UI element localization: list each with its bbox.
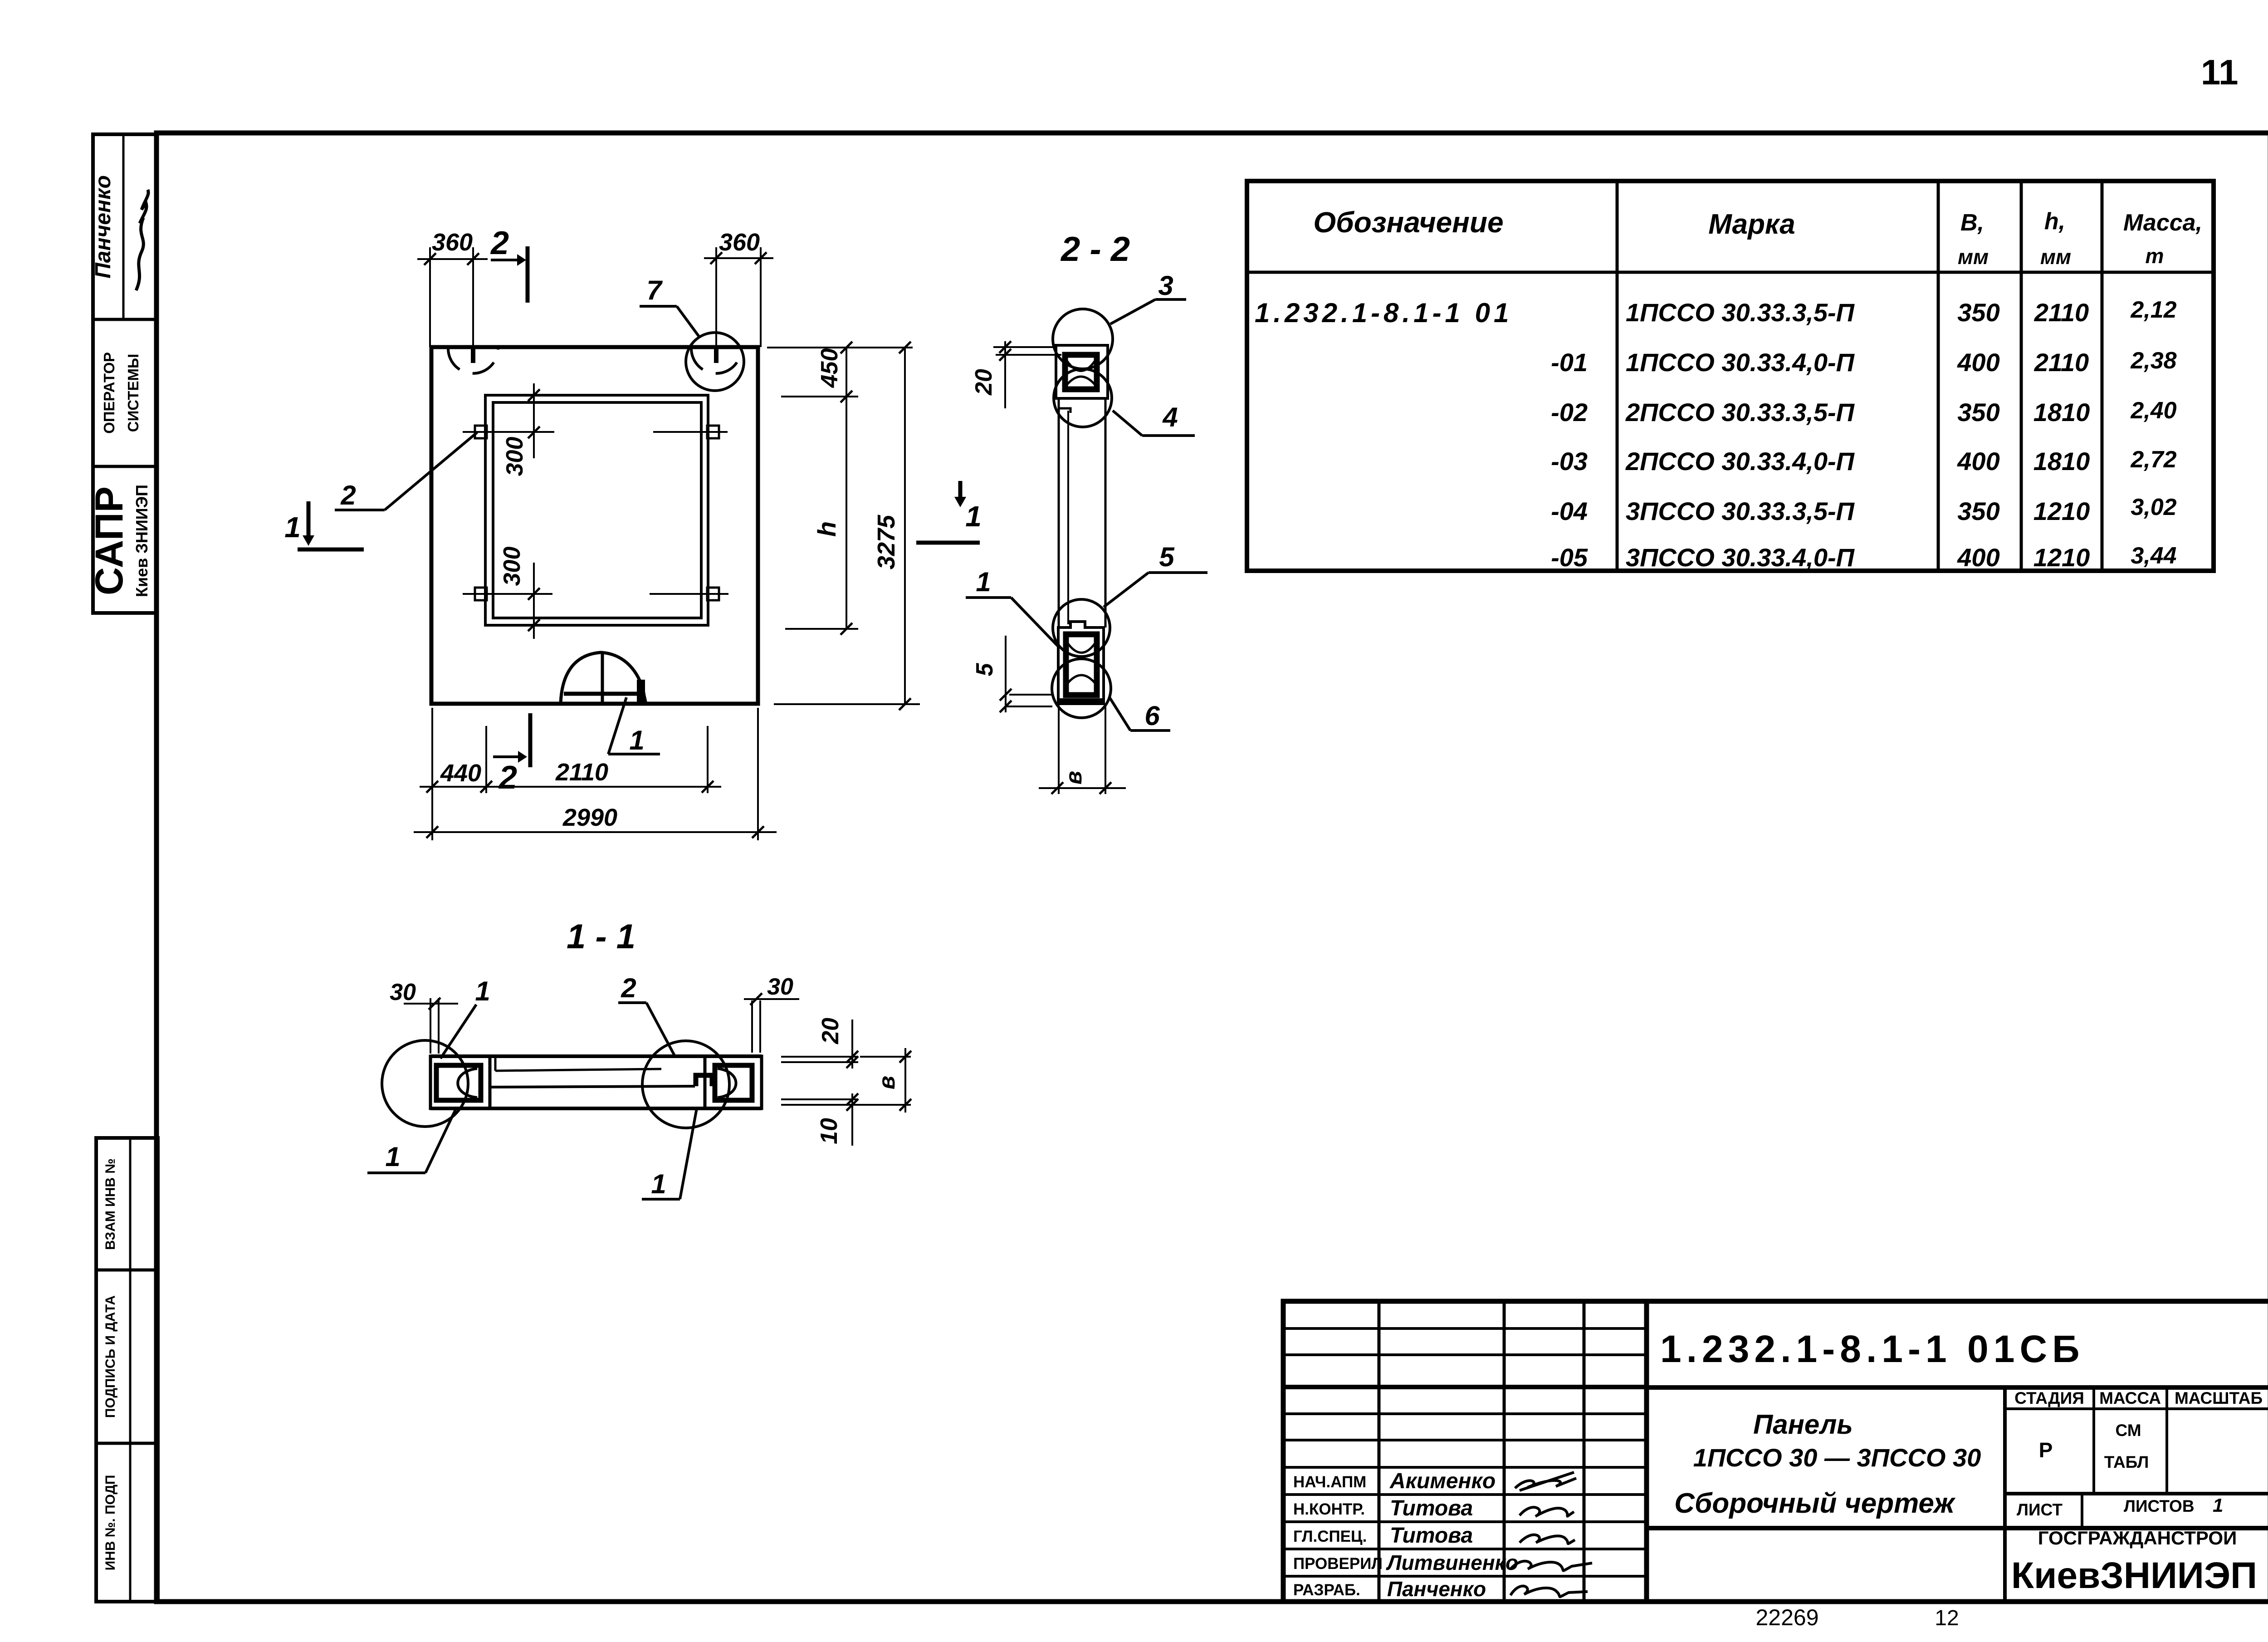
signature titova 1 — [1520, 1507, 1574, 1516]
svg-text:11: 11 — [2201, 52, 2238, 92]
title block left grid horizontals — [1283, 1327, 1647, 1330]
svg-text:САПР: САПР — [88, 486, 131, 595]
svg-text:Н.КОНТР.: Н.КОНТР. — [1293, 1500, 1365, 1518]
window opening inner — [493, 402, 701, 618]
svg-text:2990: 2990 — [562, 804, 617, 831]
dim 360 top-right — [715, 247, 717, 346]
svg-text:1: 1 — [651, 1169, 666, 1199]
svg-text:В,: В, — [1960, 210, 1984, 236]
dim line 3275 — [904, 348, 906, 704]
section 1-1 left box outer — [430, 1056, 490, 1108]
svg-text:350: 350 — [1957, 398, 1999, 426]
svg-text:3275: 3275 — [873, 515, 900, 569]
svg-text:Панченко: Панченко — [91, 175, 115, 279]
svg-text:ВЗАМ ИНВ №: ВЗАМ ИНВ № — [103, 1158, 118, 1250]
svg-text:1: 1 — [385, 1142, 400, 1172]
svg-text:МАСШТАБ: МАСШТАБ — [2175, 1389, 2263, 1407]
dim 10 right 1-1 — [851, 1093, 853, 1146]
section 2-2 top loop arcs — [1067, 361, 1095, 371]
svg-text:4: 4 — [1162, 402, 1178, 432]
svg-text:30: 30 — [767, 974, 793, 1000]
svg-text:3,44: 3,44 — [2131, 543, 2176, 569]
svg-text:мм: мм — [1958, 245, 1989, 269]
section 2-2 bottom box channel — [1066, 634, 1097, 695]
title block right dividers — [1647, 1385, 2268, 1390]
svg-text:в: в — [1061, 771, 1086, 784]
svg-text:300: 300 — [499, 547, 525, 586]
svg-text:2ПССО 30.33.3,5-П: 2ПССО 30.33.3,5-П — [1625, 398, 1855, 426]
section 2-2 column edges — [1058, 398, 1060, 627]
svg-text:2: 2 — [621, 973, 636, 1003]
svg-text:5: 5 — [972, 662, 998, 676]
svg-text:3ПССО 30.33.4,0-П: 3ПССО 30.33.4,0-П — [1626, 543, 1855, 572]
svg-text:400: 400 — [1957, 447, 1999, 475]
svg-text:3: 3 — [1158, 270, 1173, 301]
title block left grid verticals — [1378, 1301, 1381, 1602]
specification table outline — [1247, 181, 2214, 571]
svg-text:360: 360 — [432, 229, 473, 256]
svg-text:ПРОВЕРИЛ: ПРОВЕРИЛ — [1293, 1555, 1383, 1573]
signature litvinenko — [1510, 1561, 1592, 1571]
sidebar top group box — [93, 134, 156, 613]
svg-text:1810: 1810 — [2033, 447, 2090, 475]
fixing tab upper left — [475, 426, 487, 438]
svg-text:1.232.1-8.1-1 01СБ: 1.232.1-8.1-1 01СБ — [1660, 1328, 2085, 1370]
svg-text:1ПССО 30.33.4,0-П: 1ПССО 30.33.4,0-П — [1626, 348, 1855, 377]
svg-text:ЛИСТ: ЛИСТ — [2017, 1500, 2063, 1519]
svg-text:РАЗРАБ.: РАЗРАБ. — [1293, 1581, 1360, 1599]
svg-text:350: 350 — [1957, 298, 1999, 327]
fixing tab upper right — [707, 426, 719, 438]
svg-text:360: 360 — [719, 229, 760, 256]
detail circle 4 — [1054, 369, 1112, 427]
svg-text:1ПССО 30 — 3ПССО 30: 1ПССО 30 — 3ПССО 30 — [1693, 1443, 1981, 1472]
svg-text:30: 30 — [390, 979, 416, 1005]
svg-text:ГЛ.СПЕЦ.: ГЛ.СПЕЦ. — [1293, 1528, 1367, 1545]
svg-text:ПОДПИСЬ И ДАТА: ПОДПИСЬ И ДАТА — [103, 1295, 118, 1418]
dim 20 section 2-2 — [993, 346, 1057, 348]
detail circle 5 — [1053, 599, 1110, 657]
section 1-1 inner line upper — [494, 1056, 497, 1071]
panel outline front view — [431, 347, 758, 704]
section 1-1 bar top and bottom — [430, 1054, 762, 1058]
section marker 2 bottom — [528, 713, 533, 767]
svg-text:Марка: Марка — [1708, 209, 1795, 240]
svg-text:20: 20 — [971, 369, 997, 396]
svg-text:1 - 1: 1 - 1 — [567, 917, 635, 956]
lifting loop right dashed arc — [691, 348, 741, 373]
svg-text:1: 1 — [284, 511, 301, 544]
window opening outer — [485, 395, 708, 625]
svg-text:20: 20 — [817, 1018, 844, 1044]
section 2-2 top frame box outer — [1056, 345, 1108, 398]
svg-text:1: 1 — [475, 976, 490, 1006]
svg-text:2,12: 2,12 — [2130, 297, 2176, 323]
section 1-1 left box channel — [436, 1065, 481, 1100]
svg-text:10: 10 — [816, 1118, 842, 1144]
dim 2990 — [414, 831, 777, 833]
dim line 450 and h — [846, 348, 847, 629]
svg-text:1: 1 — [2213, 1495, 2223, 1516]
section 2-2 bottom box outer — [1058, 622, 1104, 704]
svg-text:2110: 2110 — [2034, 348, 2089, 377]
section marker 1 right — [958, 481, 963, 497]
section 1-1 left box arc — [458, 1069, 477, 1098]
fixing tab lower right — [707, 588, 719, 600]
section 1-1 right box arc — [718, 1069, 736, 1098]
svg-text:2ПССО 30.33.4,0-П: 2ПССО 30.33.4,0-П — [1625, 447, 1855, 475]
svg-text:7: 7 — [646, 275, 663, 305]
svg-text:1210: 1210 — [2033, 543, 2090, 572]
svg-text:СИСТЕМЫ: СИСТЕМЫ — [125, 354, 142, 432]
title block outline — [1283, 1301, 2268, 1602]
svg-text:т: т — [2146, 244, 2164, 268]
svg-text:3,02: 3,02 — [2131, 494, 2176, 520]
section 2-2 top box notch — [1059, 398, 1070, 413]
svg-text:2110: 2110 — [2034, 298, 2089, 327]
svg-text:Титова: Титова — [1390, 1496, 1473, 1520]
detail circle left 1-1 — [382, 1040, 468, 1127]
svg-text:МАССА: МАССА — [2099, 1389, 2161, 1407]
svg-text:3ПССО 30.33.3,5-П: 3ПССО 30.33.3,5-П — [1626, 497, 1855, 525]
svg-text:в: в — [874, 1076, 899, 1089]
svg-text:ГОСГРАЖДАНСТРОЙ: ГОСГРАЖДАНСТРОЙ — [2038, 1527, 2237, 1549]
section 1-1 right box channel — [715, 1065, 752, 1100]
fixing tab lower left — [475, 588, 487, 600]
detail circle 7 — [686, 333, 744, 391]
right extension lines 1-1 — [781, 1056, 858, 1058]
dim 30 left 1-1 — [430, 998, 431, 1054]
svg-text:-05: -05 — [1551, 543, 1588, 572]
bottom arch opening — [561, 652, 646, 704]
svg-text:440: 440 — [440, 760, 481, 787]
sidebar cell operator title — [93, 465, 156, 468]
svg-text:1: 1 — [629, 725, 644, 755]
section 2-2 bottom loop arcs — [1067, 642, 1096, 653]
svg-text:12: 12 — [1935, 1606, 1959, 1630]
svg-text:-04: -04 — [1551, 497, 1588, 525]
table column lines — [1616, 181, 1619, 571]
dim v right 1-1 — [904, 1048, 906, 1113]
sidebar cell operator name — [93, 318, 156, 321]
dim 360 top-left — [429, 247, 431, 347]
dim 5 section 2-2 — [1009, 694, 1052, 696]
svg-text:КиевЗНИИЭП: КиевЗНИИЭП — [2011, 1555, 2257, 1596]
svg-text:400: 400 — [1957, 348, 1999, 377]
detail circle 6 — [1052, 659, 1111, 718]
svg-text:400: 400 — [1957, 543, 1999, 572]
section 1-1 right box step — [696, 1075, 712, 1086]
svg-text:h,: h, — [2044, 208, 2065, 235]
svg-text:2,40: 2,40 — [2130, 397, 2176, 424]
svg-text:1: 1 — [976, 567, 991, 597]
section 2-2 bottom box base thick — [1059, 698, 1103, 704]
svg-text:Масса,: Масса, — [2123, 210, 2202, 236]
svg-text:Панченко: Панченко — [1387, 1577, 1486, 1601]
svg-text:Акименко: Акименко — [1389, 1469, 1496, 1493]
sidebar bottom group box — [96, 1138, 158, 1602]
svg-text:22269: 22269 — [1755, 1605, 1818, 1630]
section 1-1 inner line lower — [490, 1086, 695, 1087]
svg-text:СМ: СМ — [2115, 1421, 2141, 1440]
svg-text:5: 5 — [1159, 542, 1175, 572]
right side extension lines — [767, 347, 913, 348]
svg-text:2 - 2: 2 - 2 — [1060, 230, 1130, 269]
arch sleeve thick mark — [637, 680, 645, 702]
detail circle right 1-1 — [642, 1041, 729, 1128]
svg-text:Обозначение: Обозначение — [1313, 206, 1503, 239]
svg-text:ЛИСТОВ: ЛИСТОВ — [2124, 1497, 2195, 1515]
svg-text:300: 300 — [502, 437, 528, 476]
dim 30 right 1-1 — [751, 1000, 753, 1053]
svg-text:2,38: 2,38 — [2130, 348, 2176, 374]
svg-text:1810: 1810 — [2033, 398, 2090, 426]
signature squiggle top — [136, 190, 148, 290]
signature akimenko — [1515, 1472, 1576, 1490]
svg-text:Панель: Панель — [1753, 1409, 1853, 1440]
svg-text:1210: 1210 — [2033, 497, 2090, 525]
svg-text:2110: 2110 — [555, 759, 608, 786]
svg-text:h: h — [812, 521, 841, 537]
section 2-2 top frame box channel — [1065, 355, 1097, 389]
table header line — [1247, 271, 2214, 274]
svg-text:ИНВ №. ПОДП: ИНВ №. ПОДП — [103, 1475, 118, 1571]
svg-text:6: 6 — [1144, 701, 1160, 731]
svg-text:1: 1 — [965, 500, 982, 533]
sidebar cell vzam inv — [96, 1269, 158, 1272]
signature titova 2 — [1520, 1535, 1575, 1544]
svg-text:2: 2 — [498, 760, 517, 796]
svg-text:Литвиненко: Литвиненко — [1386, 1551, 1518, 1574]
svg-text:-01: -01 — [1551, 348, 1588, 377]
dim 300 lower window — [533, 563, 535, 639]
svg-text:ОПЕРАТОР: ОПЕРАТОР — [101, 352, 117, 434]
dim 300 upper window — [533, 383, 535, 458]
detail circle 3 — [1053, 309, 1113, 369]
signature panchenko — [1510, 1586, 1588, 1597]
svg-text:2: 2 — [340, 480, 356, 510]
svg-text:350: 350 — [1957, 497, 1999, 525]
dim 20 right 1-1 — [851, 1020, 853, 1069]
svg-text:Сборочный чертеж: Сборочный чертеж — [1674, 1488, 1956, 1519]
lifting loop left dashed arc — [448, 348, 498, 373]
svg-text:НАЧ.АПМ: НАЧ.АПМ — [1293, 1473, 1366, 1491]
svg-text:СТАДИЯ: СТАДИЯ — [2014, 1389, 2084, 1407]
svg-text:450: 450 — [816, 348, 843, 388]
dim B section 2-2 — [1039, 787, 1126, 789]
svg-text:2,72: 2,72 — [2130, 446, 2176, 473]
svg-text:2: 2 — [490, 225, 509, 261]
section 1-1 right box outer — [705, 1056, 762, 1108]
svg-text:Киев ЗНИИЭП: Киев ЗНИИЭП — [132, 485, 151, 597]
svg-text:Р: Р — [2039, 1438, 2053, 1462]
svg-text:1ПССО 30.33.3,5-П: 1ПССО 30.33.3,5-П — [1626, 298, 1855, 327]
dim 440 and 2110 — [420, 786, 721, 788]
svg-text:ТАБЛ: ТАБЛ — [2104, 1453, 2149, 1471]
svg-text:мм: мм — [2040, 245, 2071, 269]
bottom extension lines — [431, 708, 433, 840]
sidebar cell podpis i data — [96, 1442, 158, 1445]
svg-text:-02: -02 — [1551, 398, 1588, 426]
svg-text:Титова: Титова — [1390, 1524, 1473, 1548]
svg-text:-03: -03 — [1551, 447, 1588, 475]
svg-text:1.232.1-8.1-1 01: 1.232.1-8.1-1 01 — [1255, 298, 1512, 328]
